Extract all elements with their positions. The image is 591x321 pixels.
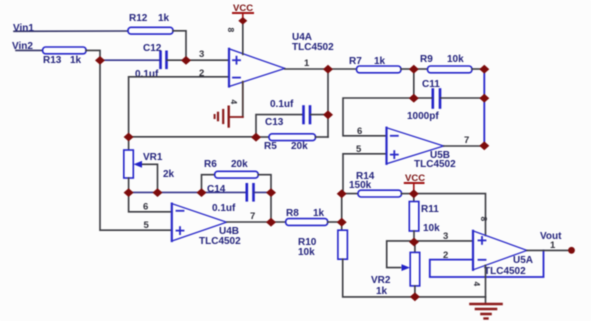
wire U5B pin5 [343,154,387,194]
wire U4A pin4 to ground [242,82,244,117]
wire node I left and down to U5B pin6 [343,98,414,136]
wire R13 right to node A [86,50,100,60]
junction K [479,141,489,150]
wire Vin2 to R13 [16,49,43,51]
wire R5 right up [316,136,329,138]
svg-text:8: 8 [479,217,489,222]
potentiometer VR2 [414,242,416,252]
wire C13 right to node E [311,114,329,116]
junction O [266,218,276,227]
resistor R14 [358,190,402,197]
svg-text:7: 7 [464,135,469,146]
wire node H down through J to U5B output K [483,69,485,146]
wire C11 right to node J [441,97,485,99]
svg-text:10k: 10k [447,54,464,65]
svg-text:VR2: VR2 [371,275,391,286]
svg-text:U5A: U5A [513,255,533,266]
ground U4A (sideways) [215,107,229,127]
svg-text:VR1: VR1 [143,152,163,163]
wire node F to R7 [328,68,357,70]
svg-text:R8: R8 [286,208,299,219]
svg-text:3: 3 [199,49,204,60]
wire U5B output to node K [444,145,485,147]
wire U5A output to Vout [527,249,572,251]
svg-text:4: 4 [229,100,239,105]
wire Vin1 to R12 [14,30,128,32]
wire C13 branch: D up and right to C13 [256,115,303,137]
svg-text:TLC4502: TLC4502 [484,266,526,277]
junction D [251,133,261,142]
svg-text:1: 1 [304,58,310,69]
op-amp U4A [229,49,285,87]
svg-text:TLC4502: TLC4502 [292,42,334,53]
svg-text:1k: 1k [158,13,170,24]
junction G [409,65,419,74]
wire C node to D node [129,136,256,138]
svg-text:R7: R7 [349,56,362,67]
wire node A to C12 [100,59,159,61]
resistor R5 [269,134,316,141]
svg-text:0.1uf: 0.1uf [212,203,236,214]
wire node U left down to VR2 wiper [387,241,414,268]
junction J [479,94,489,103]
wire U5A pin2 and feedback loop [430,250,544,277]
capacitor C11 [433,90,440,108]
VCC symbol mid [405,173,425,194]
svg-text:6: 6 [143,202,148,213]
wire R14 to node M [402,193,414,195]
svg-text:8: 8 [226,28,236,33]
svg-text:C14: C14 [207,184,226,195]
svg-text:R13: R13 [43,55,62,66]
wire VCC to U4A pin8 [242,21,244,54]
wire node G to R9 [414,68,428,70]
junction P [266,188,276,197]
junction M [409,189,419,198]
svg-text:1k: 1k [374,56,386,67]
capacitor C12 [161,52,167,68]
junction A [95,56,105,65]
wire node G down to C11 node I [413,69,415,98]
wire node A down to U4B pin5 [100,61,172,230]
svg-text:C13: C13 [265,117,284,128]
svg-text:C12: C12 [143,43,162,54]
wire R8 to node N [328,221,342,223]
wiper arrow VR1 [141,164,158,192]
potentiometer VR1 [128,137,130,150]
svg-text:2k: 2k [163,169,175,180]
wire U5A pin4 to ground [485,265,487,303]
svg-text:0.1uf: 0.1uf [135,69,159,80]
rail y192: Q to C14 [129,191,246,193]
svg-text:10k: 10k [423,223,440,234]
svg-text:1k: 1k [313,208,325,219]
VCC symbol top [233,3,253,21]
wire I to C11 left [414,97,432,99]
svg-text:R9: R9 [420,54,433,65]
wire L to R14 [342,193,358,195]
svg-text:5: 5 [356,144,362,155]
wire R10 bottom to rail [343,259,486,297]
svg-text:20k: 20k [231,159,248,170]
wire Q down to U4B pin6 [129,192,172,211]
svg-text:Vin2: Vin2 [12,41,33,52]
svg-text:2: 2 [443,250,448,261]
junction L [337,189,347,198]
svg-text:6: 6 [357,126,362,137]
resistor R7 [357,66,402,73]
svg-text:150k: 150k [349,180,372,191]
ground U5A [471,304,502,319]
junction C [124,133,134,142]
svg-text:R6: R6 [204,159,217,170]
svg-text:1k: 1k [376,286,388,297]
op-amp U4B [172,204,227,241]
resistor R12 [128,27,173,34]
junction T [410,292,420,301]
junction I [409,94,419,103]
junction VCC top [238,17,247,25]
resistor R9 [428,66,473,73]
svg-text:5: 5 [144,220,150,231]
wire R7 to node G [401,68,414,70]
svg-text:1k: 1k [70,55,82,66]
junction U [409,238,419,247]
svg-text:R12: R12 [129,13,148,24]
svg-text:2: 2 [199,68,204,79]
svg-text:Vout: Vout [540,231,562,242]
svg-text:0.1uf: 0.1uf [270,99,294,110]
svg-text:4: 4 [472,282,482,287]
svg-text:TLC4502: TLC4502 [199,236,241,247]
wire node B to U4A pin3 [186,59,229,61]
wire node L down to N [341,194,343,222]
wire node O to R8 [271,221,286,223]
wire U4B output to node O [227,221,271,223]
wire R12 right to C12 node [173,31,186,60]
resistor R10 with leads [341,222,343,230]
svg-text:3: 3 [443,231,448,242]
wire R9 to node H [472,68,484,70]
junction S [197,188,207,197]
junction R [153,188,163,197]
resistor R13 [43,47,87,54]
svg-text:Vin1: Vin1 [13,23,34,34]
svg-text:20k: 20k [291,141,308,152]
resistor R6 with leads [202,175,215,193]
junction H [479,65,489,74]
wire C14 right to node P [254,191,271,193]
wire node P down to U4B output O [270,192,272,222]
resistor R11 with leads [413,194,415,202]
wire C12 right to node B [167,59,186,61]
svg-text:R5: R5 [264,141,277,152]
wire U4A pin2 [129,77,229,137]
svg-text:1000pf: 1000pf [407,111,439,122]
svg-text:10k: 10k [298,247,315,258]
svg-text:7: 7 [250,211,255,222]
wire node M right to U5A pin8 [414,194,486,236]
svg-text:C11: C11 [422,79,440,90]
junction F [323,65,333,74]
svg-text:R11: R11 [421,204,439,215]
wire D to R5 [256,136,269,138]
op-amp U5A [473,231,527,270]
op-amp U5B [387,128,444,164]
junction B [181,56,191,65]
junction Q [124,188,134,197]
junction E [323,110,333,119]
svg-text:TLC4502: TLC4502 [414,159,456,170]
resistor R8 [286,219,328,226]
wire U4A output to node F [285,68,328,70]
capacitor C14 [247,184,254,200]
junction N [337,218,347,227]
wire node F down to E and R5 [327,69,329,137]
capacitor C13 [304,107,311,124]
wire node U to U5A pin3 [414,240,473,242]
